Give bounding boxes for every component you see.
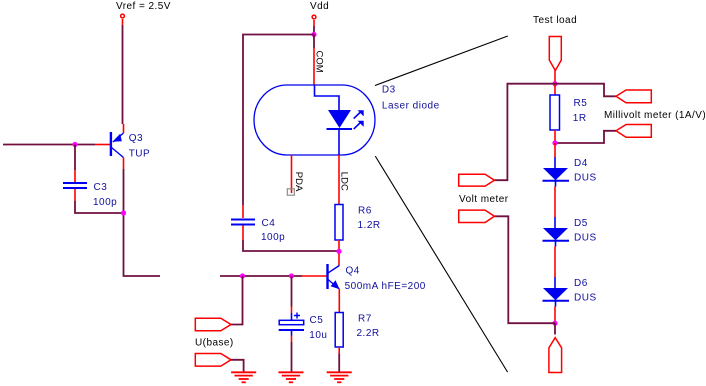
svg-text:2.2R: 2.2R [357, 328, 380, 339]
terminal Vdd [312, 15, 316, 19]
svg-text:1R: 1R [573, 113, 587, 124]
resistor R7 [335, 313, 379, 348]
svg-text:D4: D4 [574, 158, 588, 169]
wire U(base) lower to ground [231, 360, 244, 372]
wire D6 to bottom junction [554, 301, 557, 322]
svg-text:C3: C3 [94, 182, 108, 193]
svg-text:DUS: DUS [574, 293, 597, 304]
wire Q4 base net [220, 275, 327, 277]
svg-text:Q4: Q4 [346, 266, 360, 277]
wire LDC pin [338, 155, 340, 205]
ground 3 [327, 372, 352, 382]
light arrows of D3 [354, 110, 364, 129]
svg-text:C5: C5 [310, 315, 324, 326]
svg-text:Volt meter: Volt meter [459, 194, 509, 205]
svg-text:Laser diode: Laser diode [382, 101, 440, 112]
node junction bottom right [552, 321, 557, 326]
wire C4 to collector junction [243, 226, 339, 252]
wire R6 to Q4 collector [338, 240, 340, 266]
transistor Q3 [111, 132, 150, 159]
wire U(base) upper to base [231, 276, 243, 325]
node U(base) label [195, 338, 234, 349]
diode D6 [543, 278, 597, 304]
port volt meter tag A [459, 174, 495, 186]
wire Test load tag to junction [554, 71, 556, 84]
port U(base) tag lower [195, 354, 231, 367]
node junction base/U(base) [240, 273, 245, 278]
resistor R5 [550, 95, 587, 130]
node COM pin label [314, 51, 325, 73]
wire bottom junction to volt tag B [494, 216, 555, 323]
wire Vdd to C4 [243, 35, 314, 219]
node junction Vdd [311, 32, 316, 37]
node junction test load top [552, 81, 557, 86]
wire D5 to D6 [554, 241, 557, 288]
wire C5 to ground [291, 336, 293, 373]
port Test load tag [549, 37, 561, 71]
terminal Vref [121, 14, 125, 18]
svg-text:R5: R5 [574, 98, 588, 109]
port millivolt tag 2 [616, 125, 651, 138]
wire top junction to millivolt tag 1 [555, 84, 616, 97]
svg-text:C4: C4 [262, 218, 276, 229]
callout line top [375, 36, 508, 86]
svg-text:10u: 10u [309, 330, 327, 341]
node Millivolt meter label [604, 110, 706, 121]
port U(base) tag upper [195, 318, 231, 331]
svg-text:TUP: TUP [129, 148, 151, 159]
node junction R6/C4/collector [336, 249, 341, 254]
node junction R5/D4 [552, 140, 557, 145]
svg-text:D3: D3 [382, 85, 396, 96]
diode D4 [543, 158, 597, 184]
wire R5 junction to D4 [554, 143, 556, 168]
diode D3 [327, 85, 440, 155]
svg-text:500mA hFE=200: 500mA hFE=200 [345, 281, 426, 292]
wire millivolt tag 2 to R5 bottom [555, 131, 616, 143]
node Volt meter label [459, 194, 509, 205]
laser diode package D3 outline [254, 85, 375, 155]
node PDA pin label [293, 172, 304, 192]
wire D4 to D5 [554, 181, 557, 228]
resistor R6 [335, 205, 381, 241]
wire C3 branch [75, 145, 124, 214]
wire C5 branch [291, 276, 293, 313]
svg-text:D6: D6 [574, 278, 588, 289]
node LDC pin label [339, 172, 350, 191]
svg-text:100p: 100p [261, 232, 285, 243]
svg-text:R6: R6 [358, 206, 372, 217]
svg-text:LDC: LDC [339, 172, 350, 191]
callout line bottom [375, 156, 507, 372]
port millivolt tag 1 [616, 90, 651, 103]
wire Q3 collector down [124, 158, 161, 277]
svg-text:Vdd: Vdd [310, 1, 329, 12]
ground 2 [278, 372, 303, 382]
capacitor C3 [63, 182, 117, 208]
node PDA open square [287, 189, 294, 195]
wire Q4 emitter to R7 [338, 289, 340, 313]
svg-text:D5: D5 [574, 218, 588, 229]
wire Q3 base net [3, 144, 110, 146]
svg-text:Vref = 2.5V: Vref = 2.5V [116, 1, 171, 12]
svg-text:Q3: Q3 [129, 133, 143, 144]
transistor Q4 [328, 264, 426, 292]
ground 1 [231, 372, 256, 382]
wire R5 top stub [554, 84, 556, 95]
svg-text:U(base): U(base) [195, 338, 234, 349]
capacitor C4 [231, 218, 285, 243]
diode D5 [543, 218, 597, 244]
node junction base/C5 [289, 273, 294, 278]
port volt meter tag B [459, 210, 495, 222]
node junction C3/collector [121, 210, 126, 215]
wire Vref to Q3 emitter [123, 19, 124, 133]
wire D3 internal anode [315, 85, 340, 110]
svg-text:DUS: DUS [574, 233, 597, 244]
svg-text:1.2R: 1.2R [358, 220, 381, 231]
svg-text:COM: COM [314, 51, 325, 73]
capacitor C5 [279, 313, 328, 342]
svg-text:DUS: DUS [574, 173, 597, 184]
svg-text:R7: R7 [358, 314, 372, 325]
svg-text:100p: 100p [93, 197, 117, 208]
wire R7 to ground [338, 347, 340, 372]
wire top junction to volt tag A [494, 84, 555, 181]
wire R5 bottom stub [554, 130, 556, 143]
port bottom tag [549, 338, 562, 373]
wire PDA pin [291, 155, 293, 193]
node junction base/C3 [72, 142, 77, 147]
svg-text:Test load: Test load [533, 15, 577, 26]
svg-text:Millivolt meter (1A/V): Millivolt meter (1A/V) [604, 110, 706, 121]
svg-text:PDA: PDA [293, 172, 304, 192]
wire Vdd down [313, 20, 315, 35]
node Vdd label [310, 1, 329, 12]
node Test load label [533, 15, 577, 26]
node Vref label [116, 1, 171, 12]
wire bottom junction to bottom tag [554, 323, 556, 334]
wire COM pin [313, 35, 315, 86]
